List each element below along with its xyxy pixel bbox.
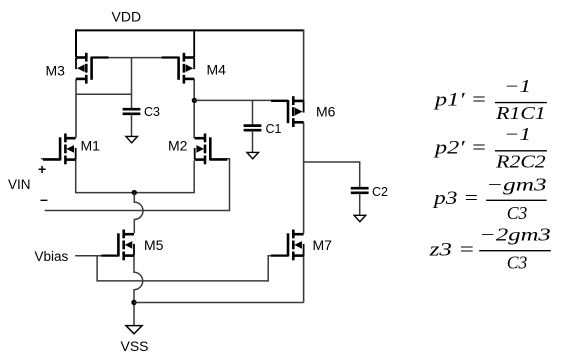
wire M1 source down xyxy=(76,160,135,193)
wire M3 drain to M1 drain xyxy=(75,79,77,138)
equation p3 = -gm3/C3 xyxy=(431,175,547,224)
equation p2 = -1/R2C2 xyxy=(432,124,547,172)
transistor M5 (NMOS) xyxy=(101,230,134,261)
transistor M4 (PMOS) xyxy=(162,53,195,84)
wire M6 drain to M7 drain (output) xyxy=(303,122,305,233)
wire tail to M5 with hop over VIN- line xyxy=(134,193,143,233)
node M4 drain junction xyxy=(192,98,197,103)
transistor M3 (PMOS) xyxy=(76,53,109,84)
svg-text:−1: −1 xyxy=(504,76,531,96)
svg-text:C3: C3 xyxy=(507,253,528,273)
equation p1 = -1/R1C1 xyxy=(432,76,547,123)
wire Vbias to M5 gate xyxy=(75,255,118,257)
svg-text:M3: M3 xyxy=(46,63,66,79)
ground below C2 xyxy=(354,215,366,221)
svg-text:M5: M5 xyxy=(144,237,164,253)
svg-text:C2: C2 xyxy=(372,185,388,199)
wire M4 drain to M2 drain xyxy=(193,79,195,139)
wire M3 source to VDD xyxy=(75,29,77,57)
wire C1 branch xyxy=(252,100,254,125)
svg-text:–: – xyxy=(40,191,48,207)
svg-text:R2C2: R2C2 xyxy=(495,152,546,172)
svg-text:z3 =: z3 = xyxy=(428,241,475,261)
svg-text:C1: C1 xyxy=(266,122,282,136)
capacitor C2 xyxy=(351,185,388,199)
node VSS junction xyxy=(131,300,136,305)
transistor M7 (NMOS) xyxy=(271,230,304,261)
wire C3 branch from gate line xyxy=(131,58,133,110)
wire M3-M4 gate line xyxy=(93,57,178,59)
svg-text:VDD: VDD xyxy=(112,9,142,25)
wire VDD rail xyxy=(75,29,304,31)
ground below C1 xyxy=(247,152,259,158)
node tail junction xyxy=(132,190,137,195)
ground VSS xyxy=(126,326,142,334)
ground below C3 xyxy=(126,136,138,142)
svg-text:−2gm3: −2gm3 xyxy=(479,225,551,245)
wire M5 source to VSS with hop over bias line xyxy=(134,256,143,325)
svg-text:R1C1: R1C1 xyxy=(495,103,546,123)
wire M6 gate line xyxy=(194,99,288,101)
svg-text:M4: M4 xyxy=(207,62,227,78)
wire VSS rail xyxy=(134,302,304,304)
wire M3 drain diode connection xyxy=(76,93,132,95)
wire C1 to ground xyxy=(252,130,254,152)
svg-text:p1′ =: p1′ = xyxy=(432,91,487,111)
svg-text:VSS: VSS xyxy=(121,338,149,354)
svg-text:p3 =: p3 = xyxy=(431,189,479,209)
wire C2 to ground xyxy=(359,193,361,216)
svg-text:C3: C3 xyxy=(144,105,160,119)
svg-text:M6: M6 xyxy=(316,104,336,120)
wire VIN+ to M1 gate xyxy=(41,158,60,160)
transistor M1 (NMOS) xyxy=(43,134,76,165)
equation z3 = -2gm3/C3 xyxy=(428,225,551,273)
svg-text:M2: M2 xyxy=(168,138,188,154)
wire M6 source to VDD xyxy=(303,29,305,101)
svg-text:+: + xyxy=(38,161,46,177)
wire M4 source to VDD xyxy=(193,29,195,57)
wire M2 source down xyxy=(134,161,194,193)
capacitor C3 xyxy=(123,105,160,119)
capacitor C1 xyxy=(244,122,282,136)
wire Vbias branch to M7 gate xyxy=(97,256,289,281)
wire VIN- to M2 gate xyxy=(45,159,230,211)
wire M7 source to VSS rail xyxy=(303,255,305,303)
svg-text:VIN: VIN xyxy=(8,177,31,192)
transistor M2 (NMOS) xyxy=(195,134,228,165)
svg-text:M1: M1 xyxy=(81,138,101,154)
svg-text:Vbias: Vbias xyxy=(35,249,69,264)
svg-text:M7: M7 xyxy=(313,237,333,253)
svg-text:−gm3: −gm3 xyxy=(486,175,547,195)
svg-text:−1: −1 xyxy=(504,124,531,144)
transistor M6 (PMOS) xyxy=(271,96,304,127)
wire C3 to ground xyxy=(131,114,133,137)
wire output to C2 xyxy=(304,162,360,188)
svg-text:p2′ =: p2′ = xyxy=(432,139,487,159)
svg-text:C3: C3 xyxy=(507,203,528,223)
